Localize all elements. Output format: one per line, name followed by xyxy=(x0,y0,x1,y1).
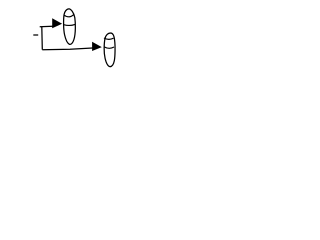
node egg E2 upper band xyxy=(104,38,114,39)
wire: bottom run to arrow A2 xyxy=(42,48,92,50)
wire: stub into arrow A1 xyxy=(40,25,53,28)
node egg E2 outline xyxy=(104,33,115,67)
node egg E1 outline xyxy=(64,9,76,45)
arrowhead A2 xyxy=(92,42,102,51)
node egg E1 lower band xyxy=(64,24,75,25)
arrowhead A1 xyxy=(52,18,62,28)
node egg E1 upper band xyxy=(64,14,74,16)
node egg E2 lower band xyxy=(104,47,114,49)
wire: vertical branch xyxy=(41,27,44,50)
label dash (minus tick) left of junction xyxy=(33,34,38,36)
